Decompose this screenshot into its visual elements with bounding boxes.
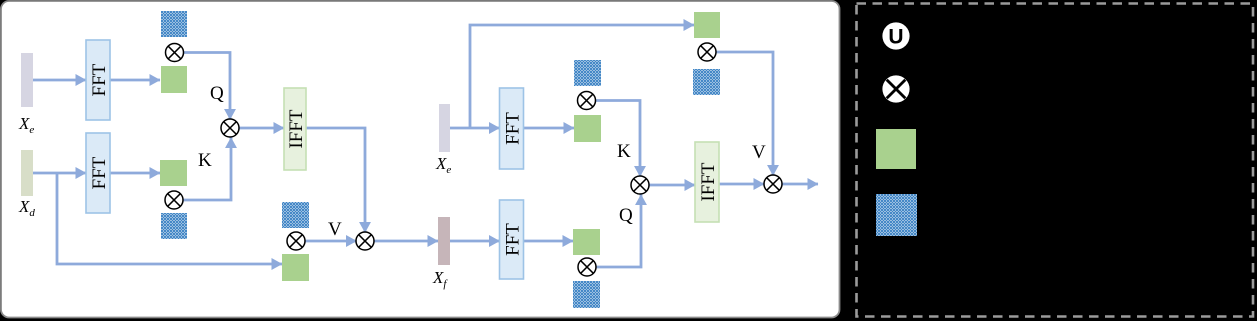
green square A2 xyxy=(160,160,187,186)
green square A1 xyxy=(161,66,187,93)
multiply node MA xyxy=(221,119,239,137)
svg-text:IFFT: IFFT xyxy=(286,109,307,148)
svg-text:FFT: FFT xyxy=(89,156,110,189)
label V2 xyxy=(752,142,766,163)
block IFFT1 xyxy=(284,88,307,170)
green square B2 xyxy=(574,115,601,142)
wire FFT2 to green square A2 xyxy=(110,172,160,175)
label K1 xyxy=(198,150,212,171)
wire mult M2 right then up to mult MA (K path) xyxy=(183,138,231,201)
green square A3 xyxy=(282,254,309,281)
wire FFT3 to green square B2 xyxy=(523,127,574,130)
multiply node M8 xyxy=(631,176,649,194)
crosshatch square A2 xyxy=(161,213,187,239)
block FFT2 xyxy=(86,133,110,213)
wire mult M6 output arrow xyxy=(782,183,818,186)
wire FFT1 to green square A1 xyxy=(110,79,160,82)
svg-text:Q: Q xyxy=(210,83,224,104)
svg-text:V: V xyxy=(752,142,766,163)
crosshatch square B1low xyxy=(693,69,720,95)
svg-text:V: V xyxy=(328,219,342,240)
legend dashed frame xyxy=(857,4,1254,317)
crosshatch square B1 xyxy=(574,60,601,86)
wire mult M7 right then down to mult M8 (K path) xyxy=(596,101,640,177)
wire IFFT2 to mult M6 xyxy=(719,183,764,186)
wire Xe1 to FFT1 xyxy=(33,79,86,82)
green square B3 xyxy=(573,229,600,255)
label K2 xyxy=(617,141,631,162)
label Xe1 xyxy=(18,114,34,136)
label Xe2 xyxy=(435,154,451,176)
legend U symbol xyxy=(882,22,909,49)
multiply node M1 xyxy=(166,44,184,62)
svg-text:K: K xyxy=(617,141,631,162)
wire mult M1 right then down to mult MA (Q path) xyxy=(184,53,231,120)
label V1 xyxy=(328,219,342,240)
input bar Xd xyxy=(21,150,33,196)
green square B1top xyxy=(694,12,720,38)
wire Xe2 branch up and right to green square B1 xyxy=(470,25,694,128)
wire mult M9 right then up to mult M8 (Q path) xyxy=(596,195,641,268)
wire Xf to FFT4 xyxy=(450,240,500,243)
svg-text:FFT: FFT xyxy=(503,223,524,256)
block FFT1 xyxy=(86,40,110,120)
wire IFFT1 right then down to mult M4 xyxy=(306,128,365,233)
svg-text:FFT: FFT xyxy=(503,112,524,145)
svg-text:K: K xyxy=(198,150,212,171)
crosshatch square A1 xyxy=(161,11,187,37)
wire Xd branch down and right to green square A3 xyxy=(57,173,282,264)
wire mult M3 to mult M4 (V path) xyxy=(305,240,357,243)
crosshatch square B2low xyxy=(573,281,600,308)
multiply node M6 xyxy=(764,175,782,193)
multiply node M3 xyxy=(287,232,305,250)
svg-text:U: U xyxy=(888,26,903,49)
block IFFT2 xyxy=(695,142,719,222)
input bar Xe2 xyxy=(439,104,450,152)
wire FFT4 to green square B3 xyxy=(524,240,573,243)
multiply node M5 xyxy=(698,43,716,61)
wire mult M8 to IFFT2 xyxy=(649,184,695,187)
block FFT3 xyxy=(500,88,524,169)
label Q1 xyxy=(210,83,224,104)
svg-text:Q: Q xyxy=(619,205,633,226)
label Xf xyxy=(432,268,448,290)
multiply node M4 xyxy=(356,232,374,250)
wire mult M4 to Xf xyxy=(374,240,438,243)
multiply node M9 xyxy=(578,258,596,276)
crosshatch square A3 xyxy=(282,202,309,228)
svg-text:IFFT: IFFT xyxy=(698,162,719,201)
wire Xe2 to FFT3 xyxy=(450,127,500,130)
legend green square xyxy=(876,129,916,169)
label Q2 xyxy=(619,205,633,226)
wire Xd to FFT2 xyxy=(33,172,86,175)
multiply node M2 xyxy=(165,191,183,209)
label Xd xyxy=(18,197,35,219)
legend multiply symbol xyxy=(882,75,909,102)
input bar Xf xyxy=(438,217,450,265)
svg-text:FFT: FFT xyxy=(89,63,110,96)
wire mult M5 right then down to mult M6 (V path) xyxy=(716,52,773,176)
legend crosshatch square xyxy=(876,194,917,236)
input bar Xe1 xyxy=(21,53,33,107)
wire mult MA to IFFT1 xyxy=(239,127,284,130)
white panel frame xyxy=(1,1,840,318)
block FFT4 xyxy=(500,200,524,279)
multiply node M7 xyxy=(578,92,596,110)
